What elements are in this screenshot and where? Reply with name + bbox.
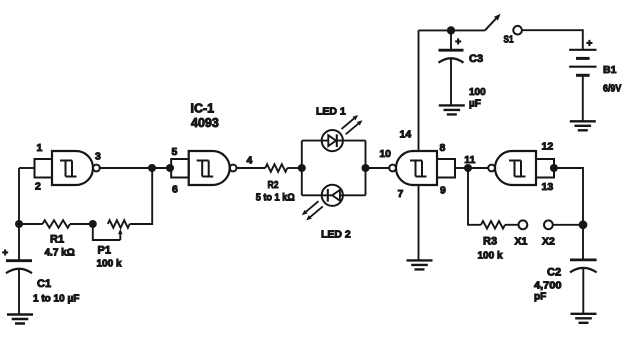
- svg-text:+: +: [2, 248, 8, 259]
- svg-text:B1: B1: [603, 64, 617, 76]
- svg-text:1 to 10 µF: 1 to 10 µF: [33, 294, 79, 305]
- wire C1 to ground: [18, 269, 20, 315]
- svg-text:P1: P1: [98, 245, 111, 257]
- wire node 11 down to R3: [468, 168, 481, 225]
- schmitt trigger symbol U1c: [410, 161, 427, 177]
- LED branch top rail wire: [302, 140, 366, 142]
- svg-text:4093: 4093: [191, 116, 219, 130]
- output bubble U1d: [488, 165, 495, 172]
- svg-text:C3: C3: [469, 53, 483, 65]
- LED1 circle: [322, 130, 343, 151]
- svg-text:4: 4: [247, 155, 253, 167]
- wire R1 to P1 node: [70, 223, 93, 225]
- wire node A down to C1: [18, 224, 20, 261]
- LED branch left vertical wire: [301, 141, 303, 196]
- schmitt trigger symbol U1a: [60, 161, 77, 177]
- svg-text:C1: C1: [37, 278, 51, 290]
- NAND gate U1b body: [189, 151, 230, 185]
- wire pin 14 up to supply rail: [418, 30, 420, 151]
- LED1 diode triangle (pointing right): [328, 135, 336, 146]
- svg-text:6/9V: 6/9V: [603, 84, 622, 95]
- resistor R3 zigzag: [481, 221, 505, 229]
- svg-text:12: 12: [542, 141, 554, 153]
- wire X2 to C2 node: [553, 224, 583, 226]
- svg-text:µF: µF: [469, 99, 481, 110]
- NAND gate U1d input tie box (pins 12-13): [536, 159, 554, 178]
- svg-text:5: 5: [172, 146, 178, 158]
- svg-text:R1: R1: [50, 234, 64, 246]
- junction at U1b input box: [166, 164, 174, 172]
- LED1 light arrow lower: [346, 124, 359, 135]
- potentiometer P1 zigzag: [108, 220, 130, 228]
- svg-text:2: 2: [35, 181, 41, 193]
- svg-text:10: 10: [379, 148, 391, 160]
- wire pin 7 down to ground: [418, 185, 420, 260]
- node 11 junction: [464, 164, 472, 172]
- ground below C2: [571, 314, 597, 323]
- wire C3 to ground: [450, 58, 452, 105]
- ground below C1: [7, 315, 33, 324]
- svg-text:X2: X2: [542, 236, 555, 248]
- wire P1 to feedback riser: [130, 168, 153, 224]
- NAND gate U1b input tie box (pins 5-6): [171, 159, 189, 178]
- LED branch bottom rail wire: [302, 194, 366, 196]
- switch S1 arm with arrow: [485, 19, 496, 31]
- svg-text:R2: R2: [268, 179, 279, 191]
- LED branch right junction: [362, 164, 370, 172]
- wire gate U1a output to gate U1b input: [100, 167, 170, 169]
- NAND gate U1c input tie box (pins 8-9): [437, 159, 455, 178]
- wire node A to R1: [19, 223, 43, 225]
- schmitt trigger symbol U1d: [509, 161, 526, 177]
- svg-text:+: +: [587, 38, 593, 49]
- wire battery to ground: [582, 75, 584, 121]
- svg-text:100: 100: [469, 87, 486, 98]
- P1 wiper bracket wire: [93, 224, 121, 240]
- LED branch left junction: [298, 164, 306, 172]
- svg-text:X1: X1: [515, 236, 528, 248]
- LED1 light arrow upper: [342, 119, 355, 130]
- LED2 circle: [322, 185, 343, 206]
- svg-text:1: 1: [37, 142, 43, 154]
- svg-text:6: 6: [172, 184, 178, 196]
- NAND gate U1a body: [52, 151, 93, 185]
- wire left rail down to node A: [18, 168, 20, 224]
- wire LED branch to U1c output bubble: [366, 167, 390, 169]
- NAND gate U1c body: [396, 151, 437, 185]
- svg-text:8: 8: [440, 142, 446, 154]
- node A junction (R1 / C1 / gate input): [15, 220, 23, 228]
- terminal X2 circle: [544, 220, 553, 229]
- ground below C3: [439, 105, 465, 114]
- wire from IC1a tied inputs to left rail: [19, 167, 35, 169]
- switch S1 contact circle: [513, 26, 522, 35]
- output bubble U1c: [389, 165, 396, 172]
- terminal X1 circle: [519, 220, 528, 229]
- junction feedback node on output wire: [148, 164, 156, 172]
- wire R2 to LED branch: [287, 167, 302, 169]
- svg-text:R3: R3: [483, 236, 497, 248]
- junction node between R1 and P1: [89, 220, 97, 228]
- svg-text:14: 14: [400, 129, 412, 141]
- capacitor C1 (electrolytic): [6, 259, 32, 262]
- wire U1c inputs to node 11: [455, 167, 468, 169]
- svg-text:LED 2: LED 2: [321, 229, 351, 241]
- LED2 light arrow lower: [310, 206, 323, 217]
- schmitt trigger symbol U1b: [197, 161, 214, 177]
- NAND gate U1d body: [495, 151, 536, 185]
- svg-text:4,700: 4,700: [534, 281, 562, 292]
- junction X2 / C2 node: [579, 220, 588, 229]
- wire C3 top lead: [450, 30, 452, 50]
- ground below pin 7: [407, 260, 433, 269]
- LED2 cathode bar: [327, 189, 329, 202]
- svg-text:S1: S1: [504, 35, 514, 46]
- svg-text:3: 3: [95, 151, 101, 163]
- wire node 11 to U1d output bubble: [468, 167, 488, 169]
- capacitor C3 (electrolytic): [439, 49, 464, 52]
- wire node to C2: [582, 225, 584, 260]
- junction at U1d inputs: [550, 164, 558, 172]
- battery B1 plates: [569, 49, 596, 51]
- resistor R2 zigzag: [265, 164, 287, 172]
- svg-text:5 to 1 kΩ: 5 to 1 kΩ: [256, 193, 295, 204]
- svg-text:100 k: 100 k: [478, 251, 503, 262]
- svg-text:C2: C2: [547, 267, 561, 279]
- LED1 cathode bar: [336, 134, 338, 147]
- wire S1 to battery: [522, 30, 583, 50]
- wire C2 to ground: [582, 268, 584, 314]
- NAND gate U1a input tie box (pins 1-2): [35, 159, 53, 178]
- ground below battery: [570, 121, 596, 130]
- wire U1d inputs to C2 riser: [554, 168, 583, 225]
- svg-text:13: 13: [542, 181, 554, 193]
- svg-text:11: 11: [464, 154, 475, 166]
- supply rail wire: [419, 29, 485, 31]
- capacitor C2: [570, 258, 597, 261]
- svg-text:9: 9: [440, 185, 446, 197]
- svg-text:+: +: [455, 37, 461, 48]
- svg-text:4.7 kΩ: 4.7 kΩ: [45, 248, 75, 259]
- svg-text:IC-1: IC-1: [191, 102, 215, 116]
- wire R3 to X1 terminal: [505, 224, 519, 226]
- LED2 diode triangle (pointing left): [332, 190, 340, 201]
- svg-text:pF: pF: [534, 292, 546, 303]
- output bubble U1a: [93, 165, 100, 172]
- svg-text:100 k: 100 k: [97, 259, 122, 270]
- output bubble U1b: [230, 165, 237, 172]
- LED2 light arrow upper: [306, 201, 319, 212]
- resistor R1 zigzag: [43, 220, 71, 228]
- svg-text:7: 7: [398, 188, 404, 200]
- LED branch right vertical wire: [365, 141, 367, 196]
- wire U1b output to R2: [237, 167, 266, 169]
- svg-text:LED 1: LED 1: [316, 106, 346, 118]
- junction at C3 tap: [447, 26, 455, 34]
- P1 wiper arrow: [119, 234, 121, 240]
